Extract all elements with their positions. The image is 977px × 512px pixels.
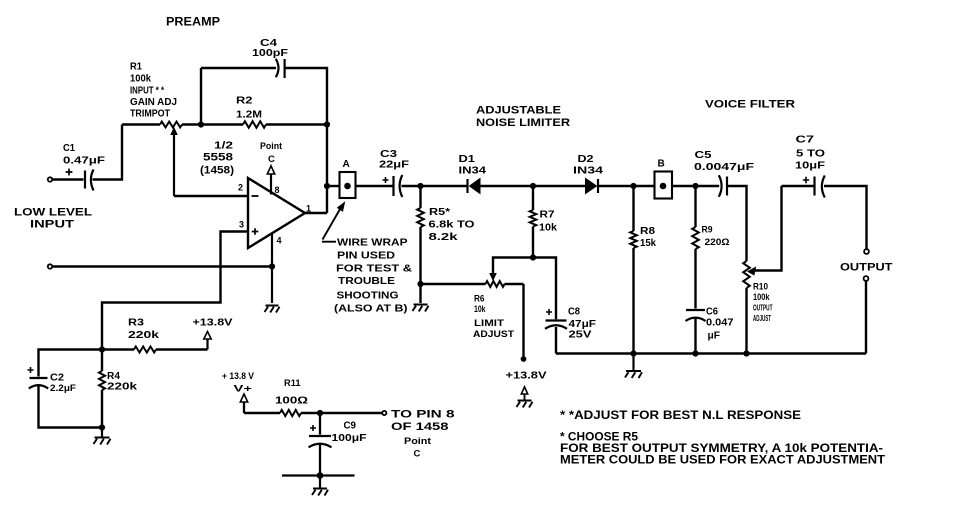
svg-text:A: A: [343, 159, 350, 170]
node R11-C9: [317, 410, 323, 416]
svg-text:INPUT * *: INPUT * *: [130, 86, 164, 97]
ground (pin 4): [265, 306, 280, 313]
wire A to C3: [356, 185, 393, 187]
node output-A junction: [324, 183, 330, 189]
node C6-rail: [692, 350, 698, 356]
terminal to pin 8: [382, 411, 386, 415]
svg-text:C9: C9: [344, 420, 357, 432]
wire output riser: [326, 125, 328, 214]
svg-text:C2: C2: [50, 372, 64, 384]
capacitor C5: [694, 149, 755, 197]
svg-text:INPUT: INPUT: [30, 219, 74, 231]
svg-text:ADJUSTABLE: ADJUSTABLE: [476, 105, 561, 117]
svg-text:D1: D1: [459, 153, 476, 165]
+13.8V terminal dot: [521, 356, 527, 362]
R1 wiper arrow: [171, 128, 177, 196]
output terminal (bottom): [864, 276, 869, 281]
svg-text:0.0047μF: 0.0047μF: [694, 161, 755, 173]
svg-text:C7: C7: [796, 134, 815, 146]
resistor R4: [99, 350, 138, 428]
Point C arrow: [267, 166, 274, 174]
svg-text:NOISE LIMITER: NOISE LIMITER: [476, 117, 570, 129]
capacitor C7: [795, 134, 826, 198]
wire R7 node to C8: [533, 258, 556, 320]
test point B box: [655, 159, 673, 199]
svg-text:Point: Point: [404, 436, 432, 447]
svg-text:C8: C8: [568, 306, 580, 318]
test point A box: [340, 159, 356, 198]
svg-text:4: 4: [277, 236, 282, 246]
node D1-R7-D2: [530, 183, 536, 189]
node R3-R4-C2: [99, 346, 105, 352]
wire C8 to rail: [555, 327, 557, 354]
svg-text:25V: 25V: [569, 329, 592, 341]
svg-text:μF: μF: [708, 330, 721, 342]
U1 labels 1/2 5558 (1458): [200, 140, 234, 177]
svg-text:IN34: IN34: [573, 165, 603, 177]
ground (rail): [625, 354, 642, 379]
output terminal (top): [864, 249, 869, 254]
pin 3 wire: [102, 232, 248, 350]
svg-text:1.2M: 1.2M: [236, 109, 262, 121]
svg-text:D2: D2: [578, 153, 594, 165]
wire output return: [865, 281, 867, 354]
svg-text:OUTPUT: OUTPUT: [840, 262, 893, 274]
svg-text:1: 1: [306, 204, 311, 214]
wire B to node: [672, 185, 696, 187]
wire C3 to node: [402, 185, 421, 187]
svg-text:TRIMPOT: TRIMPOT: [130, 109, 170, 120]
node R4-C2 bottom: [99, 424, 105, 430]
ground bar (C9): [282, 474, 355, 476]
svg-text:* CHOOSE R5: * CHOOSE R5: [560, 432, 639, 444]
diode D1: [459, 153, 487, 194]
svg-text:5558: 5558: [203, 152, 233, 164]
svg-text:2: 2: [238, 183, 243, 193]
resistor R9: [692, 186, 730, 309]
label TO PIN 8 OF 1458: [391, 409, 455, 460]
svg-text:10k: 10k: [539, 222, 557, 234]
svg-text:FOR BEST OUTPUT SYMMETRY, A 10: FOR BEST OUTPUT SYMMETRY, A 10k POTENTIA…: [560, 443, 883, 455]
node D2-R8-B: [630, 183, 636, 189]
node R5-R6 junction: [417, 281, 423, 287]
pointer arrow to A: [322, 203, 345, 242]
svg-text:R6: R6: [474, 294, 485, 305]
svg-text:R8: R8: [640, 225, 655, 237]
svg-text:PREAMP: PREAMP: [166, 15, 220, 29]
svg-text:2.2μF: 2.2μF: [50, 383, 76, 394]
svg-text:10μF: 10μF: [795, 160, 826, 172]
wire feedback left riser: [200, 68, 202, 125]
svg-text:C5: C5: [695, 149, 712, 161]
+13.8V ground arrow: [517, 387, 533, 408]
capacitor C8: [545, 306, 597, 341]
wire node to D1: [421, 185, 467, 187]
+13.8V supply arrow (R3): [193, 317, 233, 350]
wire op-amp output: [304, 212, 327, 214]
svg-text:OUTPUT: OUTPUT: [753, 304, 773, 313]
svg-text:LIMIT: LIMIT: [474, 318, 504, 329]
node C9-ground: [317, 472, 324, 479]
resistor R3: [102, 317, 208, 353]
svg-text:R4: R4: [107, 371, 120, 382]
capacitor C6: [686, 306, 734, 354]
svg-text:100Ω: 100Ω: [275, 396, 308, 407]
svg-text:15k: 15k: [640, 237, 656, 249]
svg-text:IN34: IN34: [459, 165, 487, 177]
svg-text:3: 3: [239, 220, 244, 230]
svg-text:C: C: [268, 154, 275, 165]
svg-text:VOICE FILTER: VOICE FILTER: [705, 99, 795, 111]
resistor R6 (pot): [473, 281, 524, 340]
resistor R5: [417, 186, 474, 303]
svg-text:C1: C1: [63, 142, 75, 154]
svg-text:R1: R1: [130, 62, 142, 73]
capacitor C3: [379, 148, 410, 197]
svg-text:C: C: [414, 449, 421, 460]
pin 4 wire: [271, 234, 273, 304]
svg-text:ADJUST: ADJUST: [473, 329, 514, 340]
wire node to D2: [533, 185, 586, 187]
capacitor C9: [309, 413, 368, 447]
svg-text:5 TO: 5 TO: [796, 148, 825, 160]
wire wiper to op-amp pin 2: [174, 195, 248, 197]
svg-text:6.8k TO: 6.8k TO: [429, 219, 475, 231]
wire node to B: [634, 185, 656, 187]
svg-text:1/2: 1/2: [214, 140, 233, 152]
svg-text:* *ADJUST FOR BEST N.L RESPONS: * *ADJUST FOR BEST N.L RESPONSE: [560, 410, 801, 422]
svg-text:100k: 100k: [753, 292, 770, 303]
wire C5 to R10: [727, 186, 747, 261]
svg-text:8.2k: 8.2k: [429, 231, 458, 243]
note wire wrap text: [334, 237, 413, 315]
node R8-rail-ground: [630, 350, 636, 356]
resistor R10 (pot): [743, 261, 772, 354]
wire input return: [52, 265, 272, 267]
svg-text:8: 8: [275, 185, 280, 195]
svg-text:R11: R11: [284, 378, 301, 389]
svg-text:OF 1458: OF 1458: [391, 421, 449, 433]
R10 wiper arrow: [748, 186, 782, 275]
svg-text:+13.8V: +13.8V: [506, 370, 547, 382]
resistor R2: [201, 95, 327, 128]
wire to C4: [201, 67, 276, 69]
wire wiper riser to C7: [782, 185, 814, 187]
capacitor C4: [252, 37, 289, 78]
pin 8 wire: [270, 174, 272, 195]
node C3-R5-D1: [417, 183, 423, 189]
node R7-R6wiper-C8: [530, 254, 536, 260]
svg-text:100k: 100k: [130, 74, 151, 85]
wire D1 to node: [480, 185, 533, 187]
svg-text:SHOOTING: SHOOTING: [337, 290, 399, 302]
resistor R8: [630, 186, 656, 354]
node R2-C4 output junction: [324, 121, 330, 127]
label + 13.8 V (V+): [222, 371, 255, 395]
svg-text:0.47μF: 0.47μF: [63, 155, 106, 167]
input terminal (top): [48, 177, 52, 181]
svg-text:R9: R9: [702, 225, 713, 236]
svg-text:R10: R10: [753, 282, 768, 293]
svg-text:10k: 10k: [474, 304, 486, 315]
wire node to C5: [696, 185, 720, 187]
svg-text:PIN USED: PIN USED: [337, 250, 395, 262]
wire C7 to output: [824, 186, 867, 249]
svg-text:220k: 220k: [128, 329, 159, 341]
svg-text:B: B: [658, 159, 665, 170]
node B-R9-C5: [692, 183, 698, 189]
R1 labels: [130, 62, 177, 120]
resistor R1 (trimpot): [122, 122, 201, 128]
wire to pin8 terminal: [320, 412, 382, 414]
svg-text:METER COULD BE USED FOR EXACT: METER COULD BE USED FOR EXACT ADJUSTMENT: [560, 455, 885, 467]
label Point C: [260, 141, 283, 165]
wire R5 node to R6: [421, 283, 486, 285]
ground (R4/C2): [94, 428, 111, 445]
wire R6 to +13.8V terminal: [522, 284, 524, 357]
R6 wiper arrow: [490, 258, 533, 281]
svg-text:R5*: R5*: [429, 206, 451, 218]
V+ arrow: [240, 394, 247, 413]
svg-text:100μF: 100μF: [332, 432, 368, 444]
capacitor C1: [63, 142, 106, 191]
op-amp U1 (1/2 5558): [248, 178, 305, 248]
svg-text:(1458): (1458): [200, 165, 234, 177]
svg-text:100pF: 100pF: [252, 47, 289, 59]
svg-text:GAIN ADJ: GAIN ADJ: [130, 97, 177, 108]
svg-text:ADJUST: ADJUST: [753, 314, 771, 323]
node R10-rail: [743, 350, 749, 356]
svg-text:+13.8V: +13.8V: [193, 317, 233, 329]
svg-text:22μF: 22μF: [379, 159, 410, 171]
svg-text:R3: R3: [128, 317, 144, 329]
wire C1 to R1 riser: [93, 125, 123, 180]
wire to point A: [327, 185, 340, 187]
wire bottom rail: [556, 352, 866, 354]
capacitor C2: [28, 350, 103, 428]
svg-text:TROUBLE: TROUBLE: [338, 275, 395, 287]
ground (C9): [312, 476, 328, 496]
svg-text:WIRE WRAP: WIRE WRAP: [337, 237, 408, 249]
svg-text:Point: Point: [260, 141, 283, 152]
node R1-R2-feedback junction: [198, 121, 204, 127]
wire C9 to ground bar: [319, 445, 321, 476]
wire D2 to node: [598, 185, 634, 187]
svg-text:R2: R2: [236, 95, 253, 107]
input terminal (bottom): [48, 264, 52, 268]
svg-text:V+: V+: [234, 384, 253, 395]
svg-text:(ALSO AT B): (ALSO AT B): [334, 303, 408, 315]
svg-text:+ 13.8 V: + 13.8 V: [222, 371, 255, 382]
wire C4 to right riser: [285, 68, 327, 125]
wire input to C1: [52, 178, 83, 180]
ground (R5): [413, 305, 429, 312]
svg-text:TO PIN 8: TO PIN 8: [391, 409, 455, 421]
diode D2: [573, 153, 603, 194]
resistor R7: [530, 186, 557, 258]
resistor R11: [244, 378, 320, 416]
svg-text:FOR TEST &: FOR TEST &: [336, 263, 413, 275]
svg-text:220k: 220k: [107, 382, 138, 393]
svg-text:LOW LEVEL: LOW LEVEL: [14, 207, 92, 219]
label LOW LEVEL INPUT: [14, 207, 92, 231]
svg-text:0.047: 0.047: [706, 317, 734, 329]
svg-text:220Ω: 220Ω: [705, 237, 730, 248]
node pin4-input return: [269, 263, 275, 269]
svg-text:R7: R7: [540, 209, 555, 221]
